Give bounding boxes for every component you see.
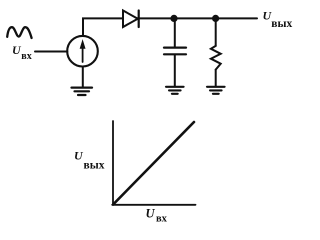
arrow inside current source [82,48,84,63]
label U_vyx output [263,9,293,30]
svg-text:вх: вх [21,51,31,62]
graph diagonal transfer line [113,122,194,204]
ground under capacitor [166,87,184,94]
wire riser and top wire [83,18,257,36]
AC source sine symbol [7,27,31,38]
svg-text:U: U [146,207,156,221]
svg-text:U: U [74,149,84,163]
wire node2 to resistor [215,18,217,46]
graph label U_vx x-axis [146,207,168,225]
ground under resistor [207,87,225,94]
svg-text:вх: вх [156,214,168,225]
wire current source to ground [82,67,84,88]
svg-text:вых: вых [84,159,105,171]
wire resistor to ground [215,70,217,87]
wire node1 to capacitor [174,18,176,46]
ground under current source [72,88,93,95]
capacitor C1 bottom plate [164,53,186,55]
graph vertical axis [112,121,114,205]
node junction dot 2 [212,15,219,22]
graph label U_vyx y-axis [74,149,105,172]
label U_vx input [12,43,32,62]
graph horizontal axis [112,204,195,206]
current source I1 [67,36,98,67]
resistor R1 zigzag [211,46,221,70]
node junction dot 1 [170,15,177,22]
wire capacitor to ground [174,55,176,86]
svg-text:вых: вых [271,18,292,30]
diode VD1 [123,11,138,28]
wire input to current source [35,51,67,53]
diode cathode bar [138,11,140,28]
capacitor C1 top plate [164,46,186,48]
